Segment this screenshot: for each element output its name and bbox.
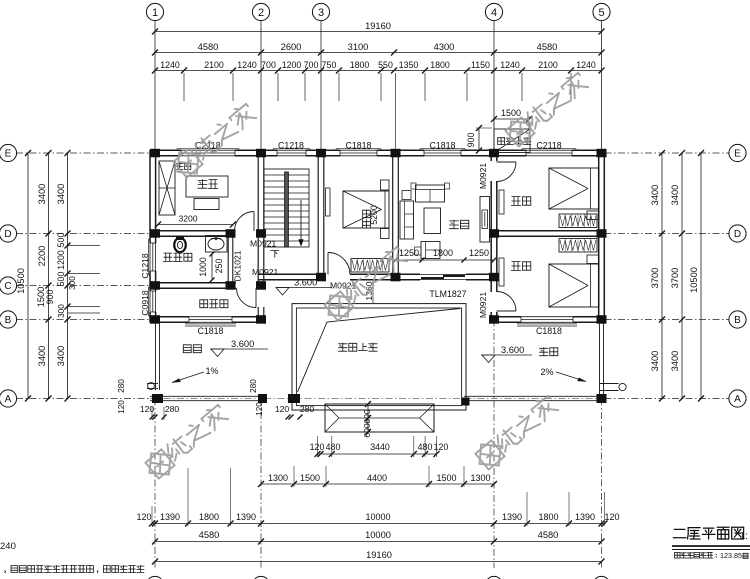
watermark study: [169, 100, 260, 183]
A-line parapet walls: [150, 395, 264, 397]
wardrobe SE bedroom: [559, 239, 597, 253]
bottom dimension row 19160: [155, 561, 602, 563]
svg-text:1800: 1800: [433, 248, 453, 258]
right dimension column 10500: [700, 153, 702, 399]
top dimension row detail: [155, 70, 602, 72]
room label pavilion: [183, 345, 201, 353]
svg-text:B: B: [734, 315, 741, 326]
svg-text:280: 280: [300, 404, 315, 414]
svg-text:E: E: [5, 149, 12, 160]
left dimension column detail: [67, 153, 69, 399]
svg-text:4580: 4580: [537, 42, 558, 52]
svg-text:750: 750: [322, 60, 337, 70]
living room sofa set: [416, 185, 445, 202]
washbasin: [206, 236, 228, 253]
room label bedroom mid: [363, 210, 371, 228]
svg-text:10000: 10000: [365, 530, 391, 540]
svg-text:120: 120: [434, 442, 449, 452]
interior corridor wall: [258, 273, 326, 275]
bottom dimension row 4580/10000/4580: [155, 541, 602, 543]
wall on axis 2: [257, 150, 259, 289]
svg-text:1%: 1%: [205, 366, 218, 376]
svg-text:1240: 1240: [160, 60, 180, 70]
svg-text:19160: 19160: [366, 550, 392, 560]
svg-text:1:: 1:: [739, 530, 748, 542]
interior wall C-line bath/storage: [150, 282, 236, 284]
pavilion west parapet: [155, 323, 157, 391]
svg-text:3400: 3400: [670, 351, 680, 372]
svg-text:2%: 2%: [540, 367, 553, 377]
svg-text:4580: 4580: [199, 530, 220, 540]
svg-text:B: B: [5, 315, 12, 326]
svg-text:1390: 1390: [575, 512, 595, 522]
svg-text:TLM1827: TLM1827: [429, 289, 466, 299]
svg-text:3400: 3400: [670, 185, 680, 206]
wall on axis 4 with door openings: [490, 150, 492, 161]
courtyard parapet: [292, 304, 466, 410]
door M0921 study: [253, 212, 255, 232]
terrace drain: [619, 383, 626, 390]
grid bubbles E/D/B/A right: [729, 144, 746, 161]
room label terrace: [540, 348, 558, 356]
svg-text:900: 900: [45, 290, 55, 305]
courtyard void diagonal: [298, 309, 461, 393]
svg-text:1500: 1500: [300, 473, 320, 483]
staircase: [264, 169, 309, 247]
room label living room: [450, 220, 469, 229]
watermark bottom left: [141, 401, 232, 484]
svg-text:2: 2: [258, 7, 264, 19]
grid bubbles 1-5 top: [146, 3, 163, 20]
svg-text:1350: 1350: [399, 60, 419, 70]
svg-text:C0918: C0918: [140, 290, 150, 316]
svg-text:600: 600: [362, 423, 372, 438]
toilet: [174, 238, 186, 252]
door M0921 bedroom mid: [327, 253, 329, 275]
right dimension column 2: [681, 153, 683, 399]
svg-text:3400: 3400: [650, 185, 660, 206]
wall between bedroom and living room: [392, 150, 394, 280]
svg-text:1800: 1800: [538, 512, 558, 522]
bathroom partition wall: [227, 237, 229, 283]
svg-text:1390: 1390: [236, 512, 256, 522]
bed SE bedroom: [549, 264, 599, 307]
svg-text:3700: 3700: [650, 268, 660, 289]
exterior east wall axis 5: [598, 150, 600, 323]
exterior west wall: [149, 150, 151, 243]
wardrobe NE bedroom: [559, 214, 597, 228]
watermark bottom right: [471, 392, 562, 475]
svg-text:1200: 1200: [282, 60, 302, 70]
svg-text:120: 120: [255, 402, 264, 416]
top dimension row 4580/2600/3100/4300/4580: [155, 52, 602, 54]
bed NE bedroom: [549, 168, 599, 209]
dim 3200 study: [158, 224, 233, 226]
svg-text:1250: 1250: [469, 248, 489, 258]
room label study: [198, 180, 218, 189]
svg-text:240: 240: [0, 541, 16, 552]
svg-text:480: 480: [326, 442, 341, 452]
svg-text:1300: 1300: [470, 473, 490, 483]
svg-text:10500: 10500: [16, 268, 26, 294]
niches on axis-4 wall: [499, 190, 504, 214]
svg-text:3200: 3200: [178, 214, 197, 224]
exterior wall B-line: [150, 316, 189, 318]
door M0921 storage: [255, 288, 257, 308]
svg-text:900: 900: [466, 133, 476, 148]
svg-text:10000: 10000: [365, 512, 390, 522]
door M0921 bedroom SE: [497, 310, 517, 312]
dims 1000/250 bathroom: [211, 254, 213, 280]
svg-text:19160: 19160: [365, 21, 391, 31]
svg-text:A: A: [734, 394, 741, 405]
svg-text:120: 120: [275, 404, 290, 414]
windows C2118/C1218/C1818/C1818/C2118 in E wall: [181, 150, 235, 157]
room label courtyard void: [339, 343, 378, 351]
svg-text:3.600: 3.600: [294, 278, 317, 288]
svg-text:C1818: C1818: [198, 326, 224, 336]
svg-text:A: A: [5, 394, 12, 405]
svg-text:C: C: [4, 281, 11, 292]
top dimension row 19160: [155, 31, 602, 33]
grid bubbles E-A left: [0, 144, 17, 161]
terrace east parapet: [599, 323, 601, 397]
svg-text:2600: 2600: [281, 42, 302, 52]
svg-text:2100: 2100: [538, 60, 558, 70]
svg-text:DK1021: DK1021: [233, 250, 243, 281]
svg-text:1240: 1240: [576, 60, 596, 70]
svg-text:M0921: M0921: [250, 239, 276, 249]
svg-text:1500: 1500: [436, 473, 456, 483]
watermark courtyard: [320, 243, 411, 326]
dims 1250/1800/1250 living room: [396, 259, 495, 261]
svg-text:4400: 4400: [367, 473, 387, 483]
watermark canopy: [501, 69, 592, 152]
svg-text:4580: 4580: [538, 530, 559, 540]
title block: [673, 527, 743, 539]
svg-text:4580: 4580: [198, 42, 219, 52]
svg-text:700: 700: [304, 60, 319, 70]
svg-text:3400: 3400: [37, 184, 47, 205]
svg-text:C1218: C1218: [278, 141, 304, 151]
svg-text:3700: 3700: [670, 268, 680, 289]
dim 1360 corridor: [372, 280, 374, 303]
svg-text:1390: 1390: [160, 512, 180, 522]
svg-text:3.600: 3.600: [231, 339, 254, 349]
svg-text:120: 120: [136, 512, 151, 522]
svg-text:1300: 1300: [268, 473, 288, 483]
windows C1218/C0918 in west wall: [149, 243, 156, 271]
svg-text:1800: 1800: [199, 512, 219, 522]
svg-text:C2118: C2118: [536, 141, 561, 151]
row grid lines E-A: [16, 152, 150, 154]
windows C1818 in B wall: [189, 316, 232, 323]
right dimension column 3400/3700/3400: [661, 153, 663, 399]
svg-text:500: 500: [56, 233, 66, 248]
svg-text:120: 120: [310, 442, 325, 452]
bottom dimension row 1390/1800/10000: [152, 523, 605, 525]
svg-text:C1818: C1818: [430, 141, 456, 151]
svg-text:3.600: 3.600: [501, 345, 524, 355]
svg-text:3400: 3400: [56, 346, 66, 367]
study bookcase: [159, 161, 175, 215]
svg-text:1000: 1000: [198, 257, 208, 277]
svg-text:300: 300: [68, 276, 77, 290]
wardrobe mid bedroom: [351, 259, 389, 273]
svg-text:3440: 3440: [370, 442, 390, 452]
TV cabinet: [480, 197, 490, 243]
door M0921 bedroom NE: [497, 161, 517, 163]
svg-text:1240: 1240: [237, 60, 257, 70]
svg-text:C1218: C1218: [140, 253, 150, 279]
room label bathroom: [163, 253, 192, 261]
bottom dimension row canopy 120/480/3440: [318, 453, 437, 455]
svg-text:250: 250: [214, 259, 224, 274]
svg-text:3: 3: [318, 7, 324, 19]
svg-text:3400: 3400: [56, 184, 66, 205]
svg-text:M0921: M0921: [478, 163, 488, 189]
svg-text:M0921: M0921: [478, 292, 488, 318]
svg-text:280: 280: [165, 404, 180, 414]
wall on axis 3: [317, 150, 319, 280]
svg-text:500: 500: [56, 272, 66, 287]
svg-text:4: 4: [491, 7, 497, 19]
svg-text:3400: 3400: [650, 351, 660, 372]
svg-text:C1818: C1818: [346, 141, 372, 151]
svg-text:280: 280: [249, 379, 258, 393]
svg-text:120: 120: [604, 512, 619, 522]
svg-text:1800: 1800: [430, 60, 450, 70]
svg-text:600: 600: [362, 409, 372, 424]
sliding door TLM1827: [420, 274, 466, 276]
interior wall D-line: [150, 230, 235, 232]
svg-text:5: 5: [598, 7, 604, 19]
bed mid bedroom: [343, 191, 389, 228]
svg-text:4300: 4300: [434, 42, 455, 52]
svg-text:5200: 5200: [369, 205, 379, 225]
svg-text:2100: 2100: [204, 60, 224, 70]
svg-text:1250: 1250: [399, 248, 419, 258]
svg-text:123.85: 123.85: [720, 551, 742, 560]
svg-text:1240: 1240: [500, 60, 520, 70]
svg-text:2200: 2200: [37, 246, 47, 267]
room label storage: [200, 300, 228, 308]
room label bedroom SE: [511, 262, 531, 271]
bottom dimension row 1300/1500/4400: [261, 483, 494, 485]
svg-text:1200: 1200: [56, 250, 66, 270]
svg-text:1390: 1390: [502, 512, 522, 522]
niche on axis-3 wall: [326, 188, 331, 216]
svg-text:300: 300: [57, 304, 66, 318]
exterior wall E-line with windows: [150, 149, 181, 151]
left dimension column 10500: [27, 153, 29, 399]
column grid lines 1-5: [154, 21, 156, 151]
svg-text:3100: 3100: [348, 42, 369, 52]
svg-text:C1818: C1818: [536, 326, 562, 336]
svg-text:3400: 3400: [37, 346, 47, 367]
svg-text:M0921: M0921: [252, 267, 278, 277]
room label bedroom NE: [511, 197, 531, 206]
svg-text:1500: 1500: [501, 108, 521, 118]
svg-text:D: D: [734, 229, 741, 240]
svg-text:D: D: [4, 229, 11, 240]
left dimension column 3400/2200/1500/3400: [48, 153, 50, 399]
entry canopy hip roof: [325, 404, 434, 432]
svg-text:1800: 1800: [350, 60, 370, 70]
study desk and chair: [186, 176, 228, 197]
rain canopy over entry: [494, 129, 530, 153]
grid bubbles bottom partial: [146, 576, 163, 579]
svg-text:550: 550: [378, 60, 393, 70]
svg-text:1150: 1150: [471, 60, 490, 70]
svg-text:E: E: [734, 149, 741, 160]
pavilion drain: [148, 383, 155, 390]
svg-text:700: 700: [261, 60, 276, 70]
svg-text:120: 120: [117, 400, 126, 414]
svg-text:10500: 10500: [689, 267, 699, 293]
structural columns: [150, 149, 160, 158]
svg-text:1: 1: [152, 7, 158, 19]
svg-text:280: 280: [117, 379, 126, 393]
